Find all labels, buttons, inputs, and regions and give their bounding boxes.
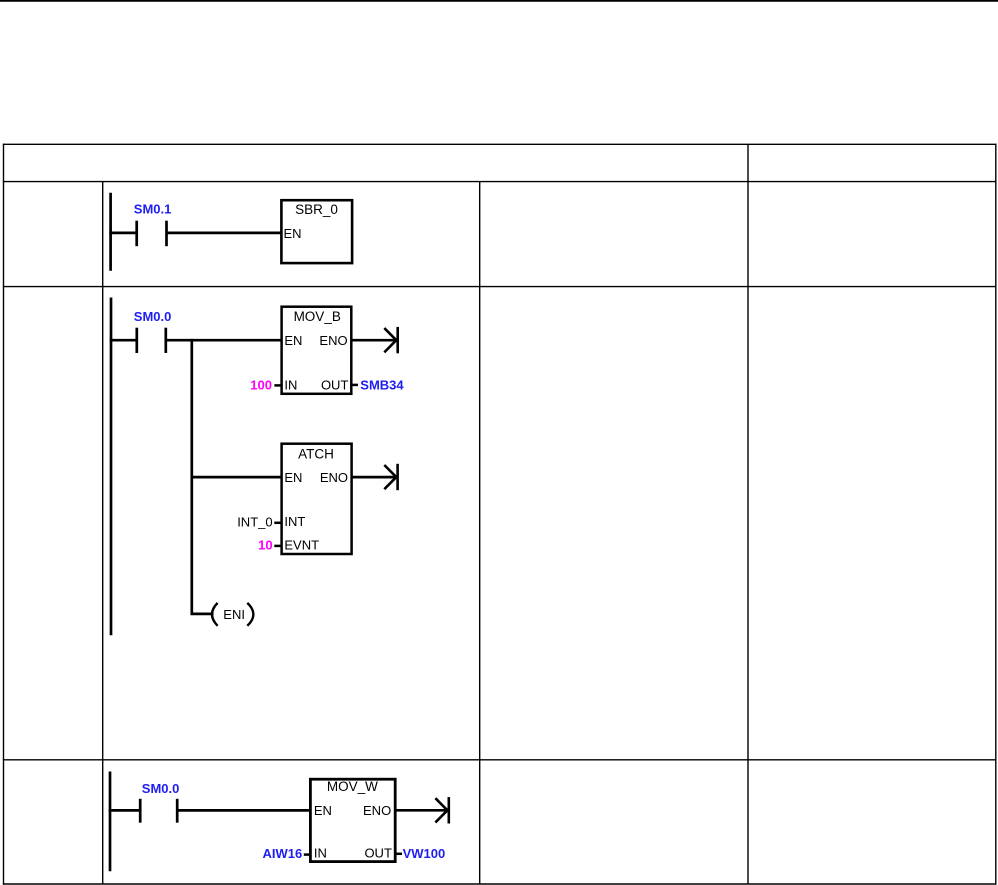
- wire ENO MOV_W to open connector: [395, 809, 447, 812]
- svg-text:MOV_B: MOV_B: [294, 309, 341, 324]
- pin stub EVNT (ATCH): [274, 545, 281, 548]
- svg-text:EN: EN: [284, 226, 302, 241]
- svg-text:SM0.1: SM0.1: [134, 202, 172, 217]
- svg-text:OUT: OUT: [321, 378, 349, 393]
- wire rail to contact SM0.0 (network 3): [109, 809, 141, 812]
- contact SM0.1: [137, 221, 167, 247]
- coil ENI left parenthesis: [212, 603, 218, 626]
- svg-text:100: 100: [250, 377, 272, 392]
- wire rail to contact SM0.1: [109, 232, 136, 235]
- svg-text:VW100: VW100: [403, 846, 446, 861]
- contact SM0.0 (network 2): [137, 328, 166, 353]
- svg-text:OUT: OUT: [364, 846, 392, 861]
- svg-text:SM0.0: SM0.0: [134, 309, 172, 324]
- wire contact SM0.1 to box SBR_0: [167, 232, 282, 235]
- svg-text:INT: INT: [284, 514, 305, 529]
- svg-text:EN: EN: [284, 470, 302, 485]
- page top rule: [0, 0, 998, 2]
- svg-text:ENO: ENO: [320, 470, 348, 485]
- wire contact SM0.0 to box MOV_W: [177, 809, 310, 812]
- network 1 left power rail: [109, 193, 112, 271]
- svg-text:10: 10: [258, 537, 272, 552]
- subroutine call box SBR_0: [281, 200, 352, 263]
- svg-text:SMB34: SMB34: [360, 378, 404, 393]
- svg-text:MOV_W: MOV_W: [327, 779, 378, 794]
- contact SM0.0 (network 3): [140, 799, 177, 823]
- pin stub INT (ATCH): [274, 522, 281, 525]
- network 3 left power rail: [109, 772, 112, 872]
- svg-text:EN: EN: [314, 803, 332, 818]
- svg-text:INT_0: INT_0: [237, 514, 272, 529]
- wire branch to coil ENI: [191, 613, 214, 616]
- svg-text:SM0.0: SM0.0: [142, 781, 180, 796]
- coil ENI right parenthesis: [247, 603, 253, 626]
- wire rail to contact SM0.0: [110, 339, 137, 342]
- wire branch to ATCH EN: [191, 476, 282, 479]
- network 2 left power rail: [110, 298, 113, 636]
- pin stub IN (MOV_B): [274, 384, 281, 387]
- open connector arrow (MOV_W ENO): [435, 797, 448, 823]
- pin stub OUT (MOV_B): [351, 384, 358, 387]
- open connector arrow (MOV_B ENO): [384, 327, 397, 353]
- svg-text:EVNT: EVNT: [284, 538, 319, 553]
- svg-text:AIW16: AIW16: [262, 846, 302, 861]
- svg-text:SBR_0: SBR_0: [295, 202, 338, 217]
- wire contact SM0.0 to box MOV_B: [166, 339, 282, 342]
- svg-text:ENO: ENO: [319, 333, 347, 348]
- move byte box MOV_B: [282, 307, 352, 394]
- attach interrupt box ATCH: [282, 444, 352, 554]
- wire ENO ATCH to open connector: [352, 476, 397, 479]
- branch junction vertical wire: [190, 339, 193, 614]
- move word box MOV_W: [310, 779, 395, 861]
- svg-text:ENO: ENO: [363, 803, 391, 818]
- wire ENO MOV_B to open connector: [351, 339, 396, 342]
- svg-text:EN: EN: [284, 333, 302, 348]
- svg-text:IN: IN: [284, 378, 297, 393]
- svg-text:ATCH: ATCH: [298, 446, 334, 461]
- svg-text:ENI: ENI: [223, 607, 245, 622]
- pin stub IN (MOV_W): [304, 853, 311, 856]
- svg-text:IN: IN: [314, 846, 327, 861]
- pin stub OUT (MOV_W): [395, 853, 402, 856]
- open connector arrow (ATCH ENO): [384, 464, 397, 490]
